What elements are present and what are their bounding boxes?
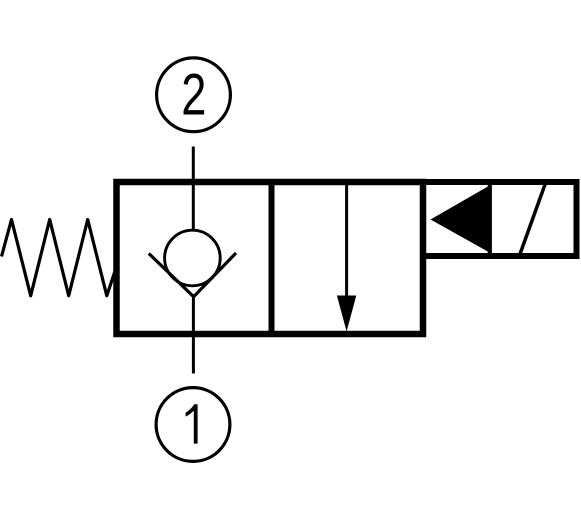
svg-text:2: 2 xyxy=(181,63,206,128)
